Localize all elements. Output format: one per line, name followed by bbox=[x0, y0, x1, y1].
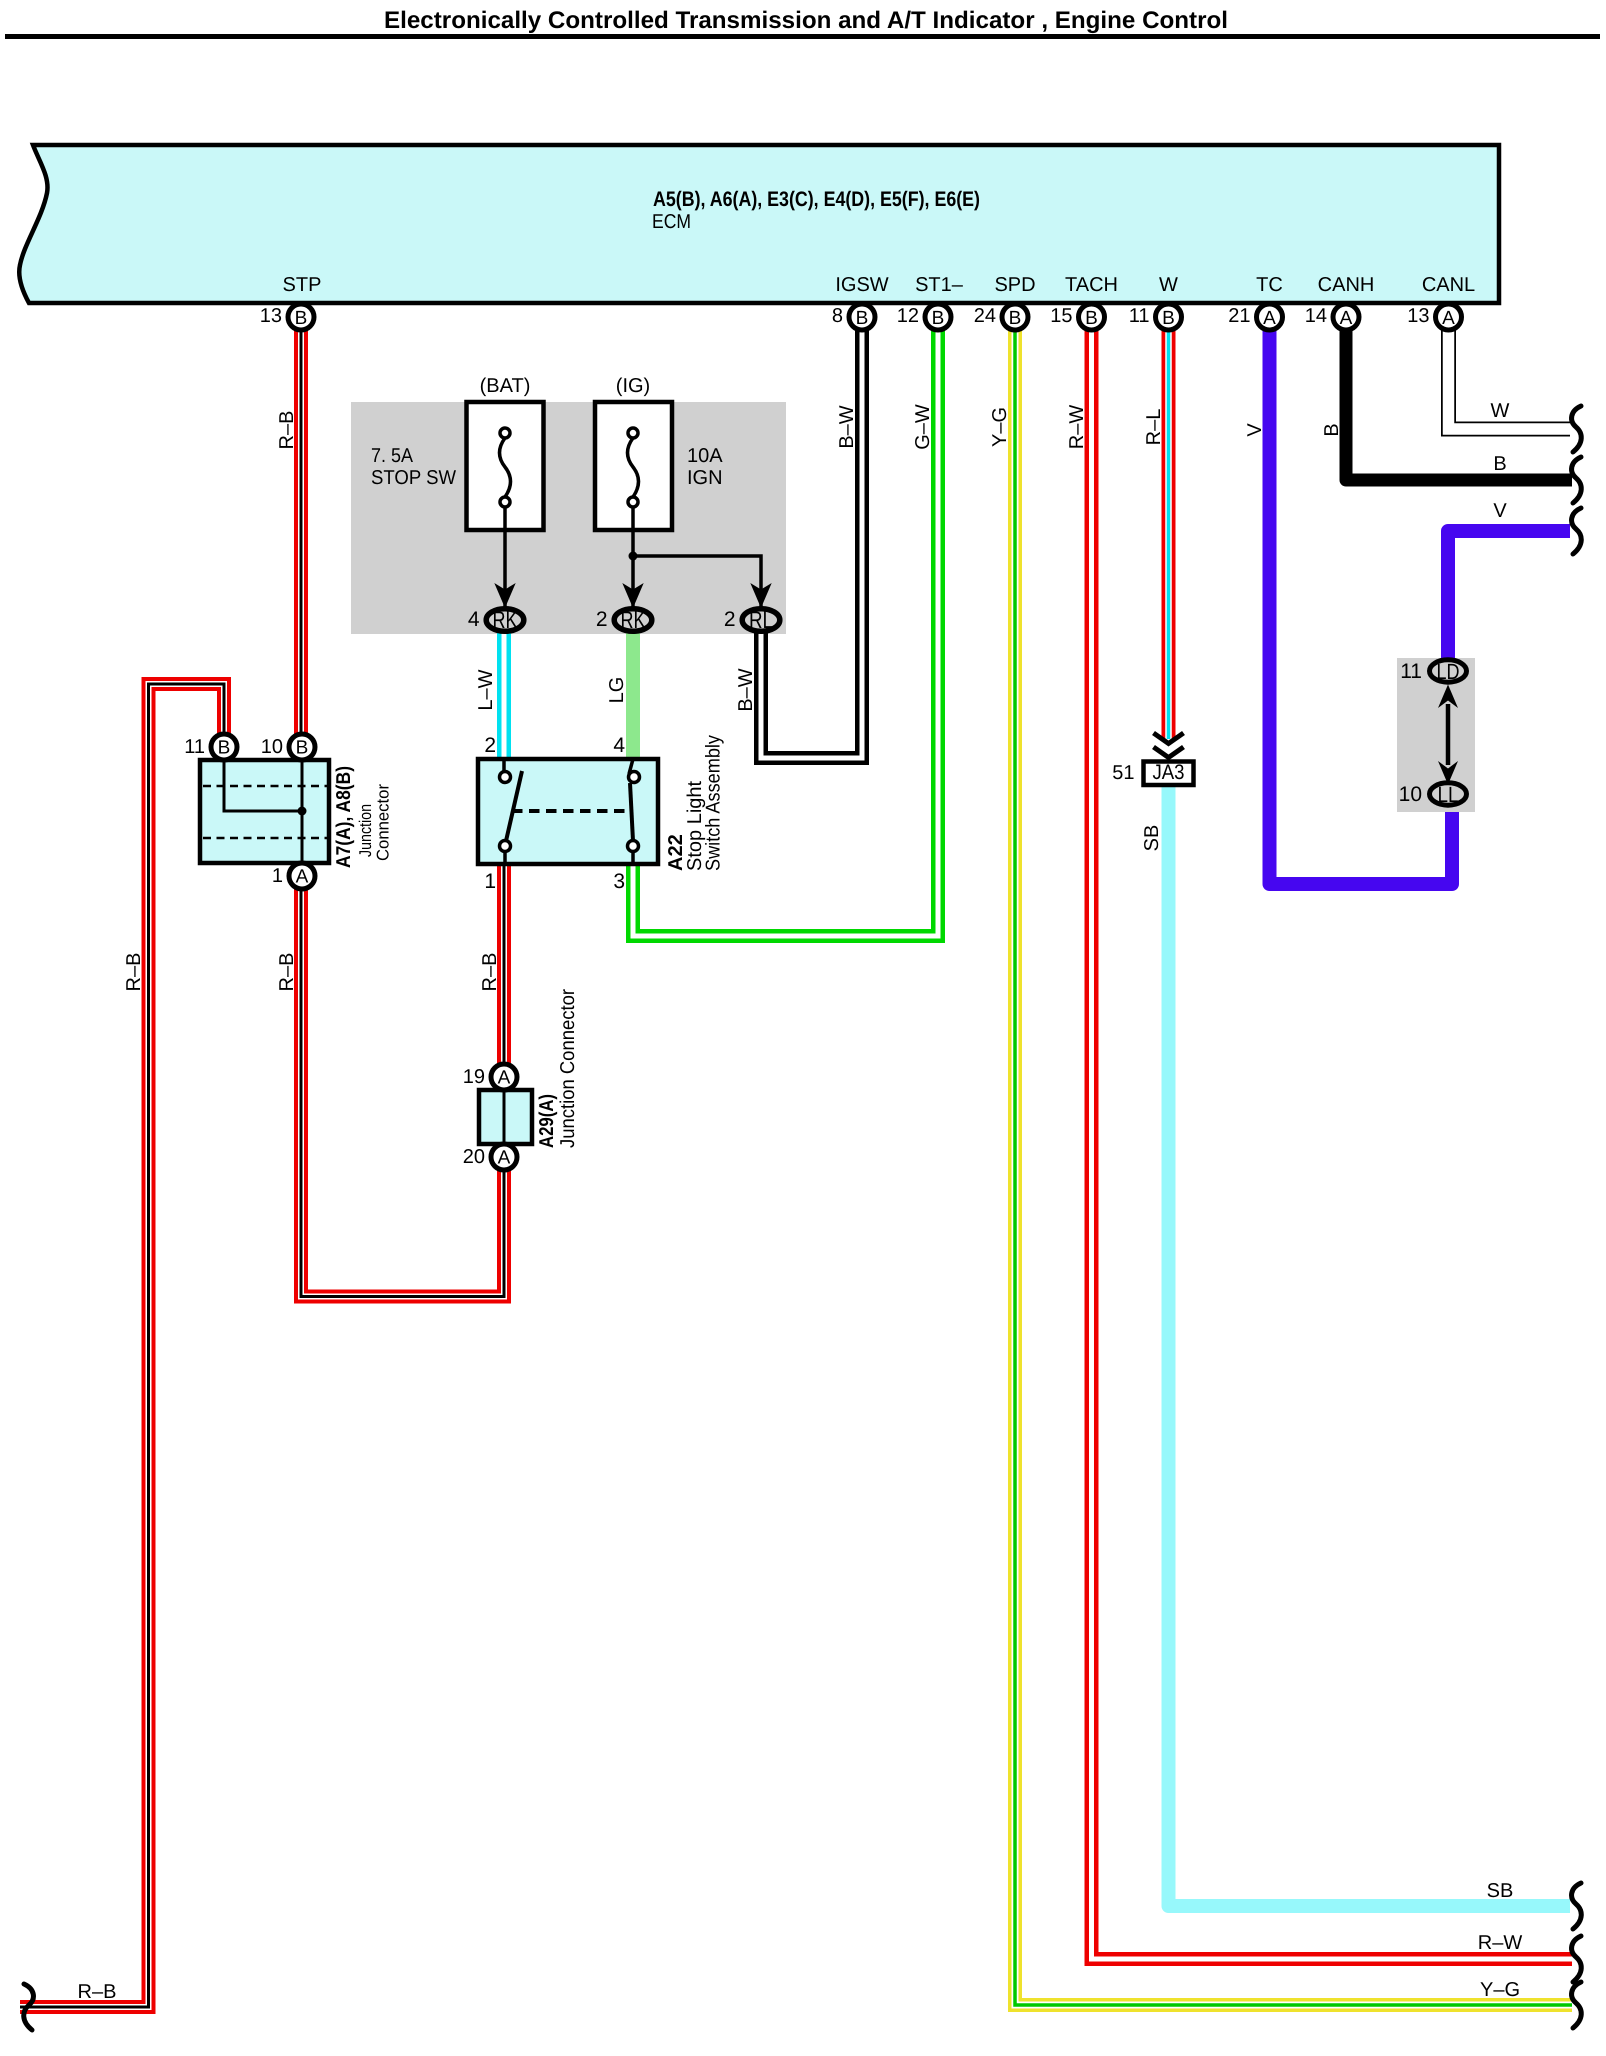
svg-text:B: B bbox=[295, 308, 308, 329]
svg-text:1: 1 bbox=[484, 870, 496, 893]
svg-text:A: A bbox=[1340, 308, 1353, 329]
svg-text:2: 2 bbox=[596, 608, 608, 631]
svg-text:JA3: JA3 bbox=[1153, 761, 1185, 784]
svg-text:A: A bbox=[498, 1148, 511, 1169]
svg-text:A29(A): A29(A) bbox=[536, 1094, 558, 1148]
svg-text:R–W: R–W bbox=[1066, 405, 1088, 450]
svg-text:1: 1 bbox=[272, 865, 283, 887]
svg-text:Connector: Connector bbox=[374, 784, 393, 861]
svg-text:Switch Assembly: Switch Assembly bbox=[703, 735, 725, 871]
svg-text:R–B: R–B bbox=[276, 411, 298, 450]
svg-text:L–W: L–W bbox=[475, 669, 497, 710]
svg-text:R–W: R–W bbox=[1478, 1932, 1523, 1954]
svg-text:13: 13 bbox=[1407, 305, 1429, 327]
svg-text:CANH: CANH bbox=[1318, 274, 1375, 296]
svg-text:SB: SB bbox=[1141, 825, 1163, 852]
svg-text:A: A bbox=[1263, 308, 1276, 329]
svg-text:TC: TC bbox=[1256, 274, 1283, 296]
svg-text:V: V bbox=[1244, 423, 1266, 437]
svg-text:V: V bbox=[1493, 500, 1507, 522]
svg-text:R–L: R–L bbox=[1143, 409, 1165, 446]
svg-text:TACH: TACH bbox=[1065, 274, 1118, 296]
svg-text:4: 4 bbox=[468, 608, 480, 631]
svg-text:LD: LD bbox=[1437, 659, 1460, 684]
svg-text:B: B bbox=[1162, 308, 1175, 329]
svg-text:Junction: Junction bbox=[356, 804, 375, 857]
svg-text:SB: SB bbox=[1487, 1880, 1514, 1902]
svg-text:RL: RL bbox=[749, 607, 773, 634]
svg-text:CANL: CANL bbox=[1422, 274, 1475, 296]
svg-text:R–B: R–B bbox=[479, 953, 501, 992]
svg-text:Junction Connector: Junction Connector bbox=[557, 989, 579, 1148]
svg-text:11: 11 bbox=[1400, 660, 1422, 683]
svg-text:W: W bbox=[1159, 274, 1178, 296]
svg-text:B: B bbox=[856, 308, 869, 329]
svg-text:Y–G: Y–G bbox=[1480, 1979, 1520, 2001]
svg-text:B: B bbox=[1321, 423, 1343, 436]
svg-text:19: 19 bbox=[463, 1066, 485, 1088]
svg-text:W: W bbox=[1491, 400, 1510, 422]
svg-text:SPD: SPD bbox=[994, 274, 1035, 296]
svg-text:2: 2 bbox=[484, 734, 496, 757]
svg-text:B: B bbox=[218, 738, 231, 759]
svg-text:ST1–: ST1– bbox=[915, 274, 964, 296]
svg-text:3: 3 bbox=[613, 870, 625, 893]
svg-text:A7(A), A8(B): A7(A), A8(B) bbox=[333, 766, 355, 868]
svg-text:B: B bbox=[1493, 453, 1506, 475]
svg-text:RK: RK bbox=[621, 607, 646, 634]
svg-text:(IG): (IG) bbox=[616, 375, 650, 397]
svg-text:B–W: B–W bbox=[836, 405, 858, 448]
svg-text:B: B bbox=[932, 308, 945, 329]
svg-text:RK: RK bbox=[493, 607, 518, 634]
svg-text:Electronically Controlled Tran: Electronically Controlled Transmission a… bbox=[384, 7, 1228, 34]
svg-text:B–W: B–W bbox=[735, 668, 757, 711]
svg-text:15: 15 bbox=[1050, 305, 1072, 327]
svg-text:STP: STP bbox=[283, 274, 322, 296]
svg-text:LL: LL bbox=[1438, 782, 1459, 807]
svg-text:B: B bbox=[1009, 308, 1022, 329]
svg-text:4: 4 bbox=[613, 734, 625, 757]
svg-text:ECM: ECM bbox=[652, 211, 691, 233]
svg-text:R–B: R–B bbox=[78, 1981, 117, 2003]
svg-text:Y–G: Y–G bbox=[989, 407, 1011, 447]
svg-text:24: 24 bbox=[974, 305, 996, 327]
svg-text:10: 10 bbox=[261, 736, 283, 758]
svg-text:11: 11 bbox=[184, 736, 205, 758]
svg-text:12: 12 bbox=[897, 305, 919, 327]
svg-text:8: 8 bbox=[832, 305, 843, 327]
svg-text:14: 14 bbox=[1305, 305, 1327, 327]
svg-text:IGSW: IGSW bbox=[835, 274, 888, 296]
svg-text:20: 20 bbox=[463, 1146, 485, 1168]
svg-text:R–B: R–B bbox=[123, 953, 145, 992]
svg-text:R–B: R–B bbox=[276, 953, 298, 992]
svg-text:A: A bbox=[1442, 308, 1455, 329]
svg-text:10A: 10A bbox=[687, 445, 723, 467]
svg-text:51: 51 bbox=[1112, 762, 1134, 784]
svg-text:21: 21 bbox=[1228, 305, 1250, 327]
svg-text:7. 5A: 7. 5A bbox=[371, 445, 414, 467]
svg-text:G–W: G–W bbox=[912, 404, 934, 450]
svg-text:10: 10 bbox=[1399, 783, 1422, 806]
svg-text:STOP SW: STOP SW bbox=[371, 467, 456, 489]
svg-text:(BAT): (BAT) bbox=[480, 375, 531, 397]
svg-text:IGN: IGN bbox=[687, 467, 723, 489]
svg-text:2: 2 bbox=[724, 608, 736, 631]
svg-text:LG: LG bbox=[606, 677, 628, 704]
svg-text:11: 11 bbox=[1129, 305, 1150, 327]
svg-text:A: A bbox=[296, 867, 309, 888]
svg-text:A: A bbox=[498, 1068, 511, 1089]
svg-text:B: B bbox=[296, 738, 309, 759]
svg-text:B: B bbox=[1085, 308, 1098, 329]
svg-text:13: 13 bbox=[260, 305, 282, 327]
svg-text:A5(B), A6(A), E3(C), E4(D), E5: A5(B), A6(A), E3(C), E4(D), E5(F), E6(E) bbox=[653, 188, 980, 211]
